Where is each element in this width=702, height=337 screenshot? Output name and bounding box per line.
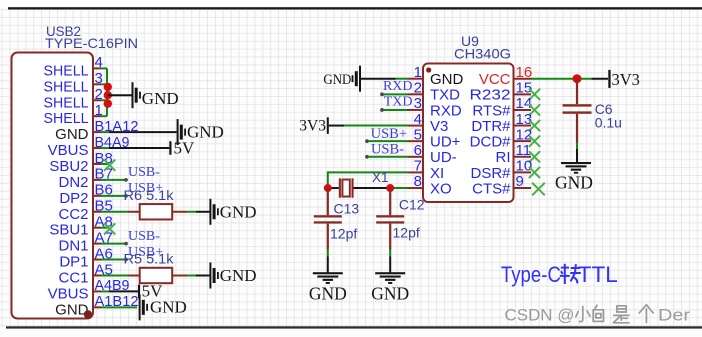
connector origin dot (84, 310, 92, 318)
wire R5 to GND flag (188, 274, 210, 276)
wire C13 to ground (327, 250, 329, 274)
capacitor C6 (563, 79, 592, 143)
no-connect X pin 12 (529, 136, 540, 147)
svg-text:11: 11 (516, 142, 532, 159)
wire C6 to ground (576, 143, 578, 164)
wire pin6 with net label USB- (365, 155, 407, 159)
title Type-C to TTL (501, 262, 618, 287)
connector pin 3 (SHELL) (44, 70, 103, 95)
no-connect X pin 11 (529, 151, 540, 162)
U9 pin 12 (DCD#) (470, 126, 533, 150)
svg-text:USB-: USB- (371, 141, 404, 157)
wire A6 with net label USB+ (101, 258, 128, 262)
svg-text:DSR#: DSR# (470, 165, 511, 182)
svg-text:0.1u: 0.1u (595, 115, 622, 131)
crystal X1 (328, 178, 390, 197)
svg-text:9: 9 (516, 173, 524, 190)
svg-text:GND: GND (55, 126, 89, 143)
svg-text:8: 8 (414, 173, 422, 190)
connector pin B5 (CC2) (58, 198, 112, 223)
connector pin B6 (DP2) (59, 182, 113, 207)
wire A5 to R5 (101, 274, 128, 276)
U9 pin 5 (UD+) (408, 126, 461, 150)
connector pin B8 (SBU2) (49, 150, 113, 175)
svg-text:GND: GND (309, 284, 347, 304)
junction crystal right (386, 184, 394, 192)
junction shell GND tap (104, 91, 112, 99)
svg-text:10: 10 (516, 158, 533, 175)
svg-text:VBUS: VBUS (48, 285, 89, 302)
svg-text:13: 13 (516, 111, 533, 128)
svg-text:SBU2: SBU2 (49, 158, 88, 175)
U9 pin 3 (RXD) (408, 95, 462, 119)
wire pin2 with net label RXD (380, 92, 407, 96)
svg-text:15: 15 (516, 80, 533, 97)
resistor R6 5.1k (128, 204, 188, 219)
U9 pin 10 (DSR#) (470, 158, 532, 182)
ground flag GND (B1A12) (177, 119, 224, 145)
svg-text:3V3: 3V3 (612, 70, 640, 89)
U9 pin 15 (R232) (470, 80, 533, 104)
connector pin B1A12 (GND) (55, 118, 138, 143)
wire stub A8 (101, 227, 109, 229)
capacitor C12 (376, 188, 404, 249)
op-amp/IC U9 CH340G body (423, 64, 514, 203)
svg-text:3V3: 3V3 (299, 117, 326, 134)
svg-text:RXD: RXD (430, 102, 462, 119)
svg-text:TXD: TXD (384, 95, 413, 110)
watermark CSDN @xiaoxiang (505, 305, 691, 325)
svg-text:UD-: UD- (430, 149, 457, 166)
svg-text:USB+: USB+ (371, 126, 407, 142)
svg-text:TTL: TTL (578, 262, 618, 287)
svg-text:CH340G: CH340G (454, 46, 511, 62)
svg-text:14: 14 (516, 95, 533, 112)
svg-text:12pf: 12pf (330, 226, 357, 242)
svg-text:16: 16 (516, 64, 533, 81)
svg-text:DN2: DN2 (58, 174, 88, 191)
wire pin8 XO to crystal right node (390, 187, 407, 189)
U9 pin 16 (VCC) (479, 64, 532, 88)
U9 pin 6 (UD-) (408, 142, 457, 166)
no-connect X pin 13 (529, 120, 540, 131)
svg-text:VCC: VCC (479, 71, 511, 88)
svg-text:3: 3 (414, 95, 422, 112)
svg-text:GND: GND (371, 284, 409, 304)
U9 pin 2 (TXD) (408, 80, 461, 104)
svg-text:GND: GND (430, 71, 464, 88)
U9 pin 9 (CTS#) (472, 173, 531, 197)
svg-text:GND: GND (323, 72, 351, 88)
svg-text:TXD: TXD (430, 87, 460, 104)
svg-text:CSDN @: CSDN @ (505, 307, 575, 325)
connector pin 2 (SHELL) (44, 86, 103, 111)
ground flag GND (R5) (209, 262, 256, 288)
connector pin A7 (DN1) (58, 229, 112, 254)
wire B1A12 to GND flag (101, 131, 177, 133)
wire R6 to GND flag (188, 211, 210, 213)
ground earth GND (C13) (309, 272, 347, 303)
no-connect X pin 10 (529, 167, 540, 178)
svg-text:SHELL: SHELL (44, 62, 89, 79)
svg-text:XO: XO (430, 180, 452, 197)
svg-text:5V: 5V (174, 138, 196, 157)
connector pin B7 (DN2) (58, 166, 112, 191)
svg-text:12pf: 12pf (393, 225, 420, 241)
svg-text:DTR#: DTR# (471, 118, 511, 135)
connector pin 1 (SHELL) (44, 102, 103, 127)
U9 pin 14 (RTS#) (472, 95, 532, 119)
wire B4A9 to 5V flag (101, 147, 169, 149)
svg-text:GND: GND (220, 202, 257, 221)
svg-text:7: 7 (414, 158, 422, 175)
connector pin A1B12 (GND) (55, 293, 138, 318)
svg-text:CC1: CC1 (58, 269, 88, 286)
ground flag GND (U9 pin1) (323, 66, 361, 92)
power flag 5V (A4B9) (138, 282, 163, 301)
svg-text:DN1: DN1 (58, 238, 88, 255)
svg-text:SHELL: SHELL (44, 110, 89, 127)
svg-text:SHELL: SHELL (44, 78, 89, 95)
U9 pin-1 marker dot (426, 67, 431, 72)
svg-text:R5 5.1k: R5 5.1k (124, 251, 175, 267)
svg-text:CC2: CC2 (58, 206, 88, 223)
power flag 5V (B4A9) (169, 138, 195, 157)
svg-text:CTS#: CTS# (472, 180, 511, 197)
svg-text:12: 12 (516, 126, 533, 143)
wire A1B12 to GND flag (101, 306, 137, 308)
svg-text:Der: Der (658, 307, 691, 325)
svg-text:SBU1: SBU1 (49, 222, 88, 239)
svg-text:SHELL: SHELL (44, 94, 89, 111)
ground flag GND (R6) (209, 199, 256, 225)
wire pin7 XI to crystal left node (328, 172, 408, 188)
svg-text:DCD#: DCD# (470, 134, 511, 151)
ground flag GND (shell) (132, 82, 179, 108)
junction VCC / C6 (573, 74, 582, 83)
no-connect X pin 15 (529, 89, 540, 100)
svg-text:X1: X1 (372, 170, 389, 185)
svg-text:1: 1 (414, 64, 422, 81)
svg-text:GND: GND (220, 266, 257, 285)
no-connect X A8 (104, 223, 115, 234)
svg-text:RI: RI (496, 149, 511, 166)
connector pin A5 (CC1) (58, 261, 112, 286)
ground flag GND (A1B12) (139, 294, 187, 320)
no-connect X B8 (104, 160, 115, 171)
no-connect X pin 14 (529, 104, 540, 115)
svg-text:RXD: RXD (383, 79, 413, 94)
svg-text:C13: C13 (334, 201, 360, 217)
svg-text:GND: GND (142, 89, 179, 108)
svg-text:USB-: USB- (128, 165, 160, 180)
wire C12 to ground (389, 250, 391, 274)
junction shell pin 2 (104, 99, 112, 107)
wire pin3 with net label TXD (380, 108, 407, 112)
svg-text:XI: XI (430, 165, 444, 182)
svg-text:5: 5 (414, 126, 422, 143)
connector USB2 TYPE-C16PIN body (12, 53, 94, 319)
U9 pin 4 (V3) (408, 111, 449, 135)
svg-text:UD+: UD+ (430, 134, 461, 151)
svg-text:4: 4 (414, 111, 422, 128)
wire stub B8 (101, 163, 109, 165)
wire pin16 VCC to 3V3 (531, 78, 608, 80)
wire A4B9 to 5V flag (101, 290, 138, 292)
junction shell pin 3 (104, 83, 112, 91)
svg-text:DP2: DP2 (59, 190, 88, 207)
svg-text:VBUS: VBUS (48, 142, 89, 159)
svg-text:USB-: USB- (128, 229, 160, 244)
svg-text:R232: R232 (470, 87, 511, 104)
svg-text:GND: GND (150, 297, 187, 316)
wire shell pins to GND (vertical bus) (101, 68, 107, 116)
wire pin5 with net label USB+ (365, 139, 407, 143)
svg-text:6: 6 (414, 142, 422, 159)
wire shell bus to GND flag (108, 94, 132, 96)
svg-text:2: 2 (414, 80, 422, 97)
wire B6 with net label USB+ (101, 194, 128, 198)
connector pin A4B9 (VBUS) (48, 277, 130, 302)
U9 pin 11 (RI) (496, 142, 532, 166)
svg-text:DP1: DP1 (59, 254, 88, 271)
U9 pin 8 (XO) (408, 173, 452, 197)
svg-text:V3: V3 (430, 118, 448, 135)
svg-text:Type-C: Type-C (501, 262, 561, 287)
wire 3V3 to pin4 V3 (329, 125, 408, 127)
svg-text:GND: GND (55, 301, 89, 318)
connector pin 4 (SHELL) (44, 54, 103, 79)
resistor R5 5.1k (128, 268, 188, 283)
U9 pin 1 (GND) (408, 64, 464, 88)
no-connect X pin 9 (532, 183, 545, 196)
connector pin A6 (DP1) (59, 245, 113, 270)
power flag 3V3 (right) (608, 70, 640, 89)
svg-text:GND: GND (555, 173, 593, 193)
U9 pin 7 (XI) (408, 158, 445, 182)
ground earth GND (C12) (371, 272, 409, 303)
svg-text:TYPE-C16PIN: TYPE-C16PIN (45, 35, 138, 51)
U9 pin 13 (DTR#) (471, 111, 532, 135)
ground earth GND (C6) (555, 162, 593, 193)
power flag 3V3 (left) (299, 117, 329, 134)
connector pin A8 (SBU1) (49, 214, 113, 239)
junction crystal left (324, 184, 332, 192)
capacitor C13 (314, 188, 342, 249)
wire A7 with net label USB- (101, 242, 128, 246)
svg-text:R6 5.1k: R6 5.1k (124, 187, 175, 203)
svg-text:RTS#: RTS# (472, 102, 511, 119)
wire B5 to R6 (101, 211, 128, 213)
wire B7 with net label USB- (101, 178, 128, 182)
wire GND flag to pin1 (361, 78, 408, 80)
connector pin B4A9 (VBUS) (48, 134, 130, 159)
svg-text:C12: C12 (399, 197, 425, 213)
